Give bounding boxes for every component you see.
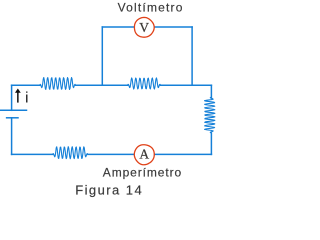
ammeter U2	[134, 145, 154, 165]
resistor R3 (right vertical)	[205, 97, 215, 133]
wire top rail left segment	[12, 84, 40, 86]
svg-text:Voltímetro: Voltímetro	[118, 1, 184, 15]
current direction arrow	[15, 89, 21, 103]
resistor R1 (top left)	[40, 78, 76, 90]
wire voltmeter loop left leg	[101, 27, 103, 85]
wire voltmeter loop top	[102, 26, 192, 28]
voltmeter U1	[134, 17, 154, 37]
wire top rail right segment	[161, 84, 212, 86]
wire bottom rail left segment	[12, 153, 53, 155]
wire left vertical top (battery to top rail)	[11, 85, 13, 110]
svg-text:V: V	[139, 20, 149, 35]
wire right vertical bottom stub	[210, 133, 212, 155]
wire bottom rail right segment	[155, 153, 212, 155]
wire top rail middle segment	[76, 84, 128, 86]
battery (cell)	[0, 110, 27, 118]
svg-text:A: A	[139, 146, 149, 161]
svg-text:i: i	[25, 90, 28, 107]
resistor R4 (bottom)	[53, 147, 88, 159]
wire left vertical bottom (battery to bottom rail)	[11, 118, 13, 155]
svg-text:Figura 14: Figura 14	[75, 182, 143, 197]
wire right vertical top stub	[210, 85, 212, 97]
wire voltmeter loop right leg	[191, 27, 193, 85]
wire bottom rail middle segment	[88, 153, 134, 155]
resistor R2 (under voltmeter)	[128, 78, 161, 89]
svg-text:Amperímetro: Amperímetro	[103, 165, 182, 179]
